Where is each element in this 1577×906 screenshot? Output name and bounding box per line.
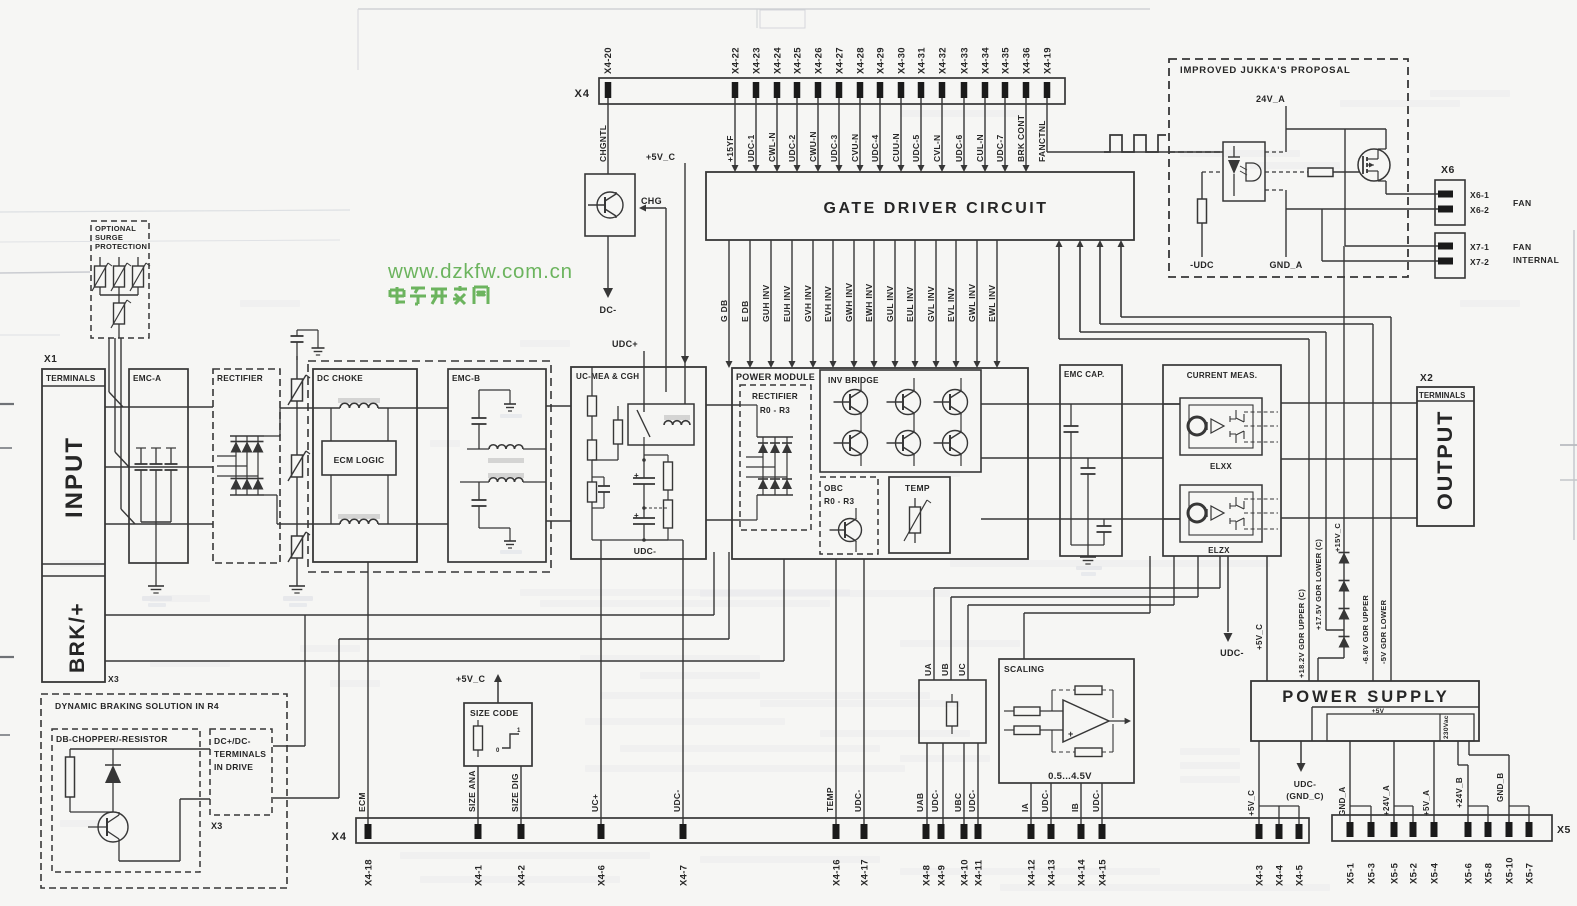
svg-text:X4-1: X4-1	[474, 864, 485, 886]
wire DC+ rail rectifier to choke	[280, 407, 340, 409]
temp sensor block	[889, 477, 950, 553]
inverter bridge block	[820, 370, 981, 472]
mosfet Q-FAN	[1358, 149, 1390, 181]
pin X4-20	[603, 47, 614, 98]
uc-mea & cgh block	[571, 367, 706, 559]
svg-text:GATE DRIVER CIRCUIT: GATE DRIVER CIRCUIT	[824, 200, 1049, 217]
svg-text:+5V_C: +5V_C	[456, 674, 485, 684]
wire phase C input	[105, 523, 213, 525]
voltage divider block UA/UB/UC	[919, 663, 986, 743]
pin X4-28	[856, 47, 867, 98]
wire phase W output	[981, 518, 1180, 520]
wire input feed L1	[109, 338, 123, 407]
bleeder resistor R5	[644, 455, 673, 500]
svg-text:X4-8: X4-8	[922, 865, 933, 886]
svg-text:BRK CONT: BRK CONT	[1016, 114, 1026, 162]
svg-text:UBC: UBC	[953, 793, 963, 812]
wire UDC-5 from pin to gate driver	[911, 98, 925, 172]
svg-text:EMC CAP.: EMC CAP.	[1064, 370, 1104, 379]
svg-text:PROTECTION: PROTECTION	[95, 242, 147, 251]
svg-text:EVH INV: EVH INV	[823, 286, 833, 322]
svg-text:GND_A: GND_A	[1269, 260, 1302, 270]
svg-text:X4-31: X4-31	[917, 47, 928, 74]
svg-text:+5V_A: +5V_A	[1422, 790, 1431, 816]
wire X7-2 to GND_A	[1322, 209, 1438, 261]
pin X4-10 (UBC)	[953, 793, 971, 886]
svg-text:G DB: G DB	[719, 300, 729, 322]
wire -6.8V GDR UPPER supply	[1097, 240, 1374, 681]
EMC-A Y-capacitors	[135, 448, 178, 522]
svg-text:X4-29: X4-29	[876, 47, 887, 74]
svg-text:X4-30: X4-30	[897, 47, 908, 74]
scaling block	[999, 659, 1134, 783]
wire EWL INV gate driver to power module	[987, 240, 1001, 368]
wire GWL INV gate driver to power module	[967, 240, 981, 368]
svg-text:UDC-: UDC-	[967, 790, 977, 812]
wire EWH INV gate driver to power module	[864, 240, 878, 368]
wire CWL-N from pin to gate driver	[767, 98, 781, 172]
gate driver circuit block U-GD	[706, 172, 1134, 240]
size code block	[464, 703, 532, 766]
wire phase U output	[981, 403, 1180, 405]
svg-text:X4-19: X4-19	[1043, 47, 1054, 74]
pin X4-31	[917, 47, 928, 98]
net 24V_A	[1256, 94, 1386, 152]
svg-text:OBC: OBC	[824, 484, 843, 493]
dc bus capacitor C3	[633, 506, 655, 542]
svg-text:+: +	[1068, 729, 1074, 739]
gate resistor R-G	[1265, 168, 1360, 177]
terminal block X1	[42, 354, 119, 684]
emc cap ground	[1071, 545, 1104, 576]
pin X4-14 (IB)	[1070, 803, 1088, 886]
pin X4-26	[814, 47, 825, 98]
svg-text:UDC-7: UDC-7	[995, 135, 1005, 162]
emc capacitor C6	[1097, 519, 1112, 545]
svg-text:X6-2: X6-2	[1470, 205, 1489, 215]
current sensor ELZX	[1180, 485, 1278, 555]
charging relay K1	[628, 404, 694, 445]
svg-text:UC+: UC+	[590, 794, 600, 812]
svg-text:ELZX: ELZX	[1208, 546, 1230, 555]
svg-text:+18.2V GDR UPPER (C): +18.2V GDR UPPER (C)	[1297, 589, 1306, 678]
pin X4-12 (IA)	[1020, 803, 1038, 886]
dc bus varistor RV6	[288, 424, 310, 508]
EMC-B filter block	[448, 369, 546, 562]
svg-text:CUL-N: CUL-N	[975, 134, 985, 162]
wire phase U into ELXX	[1163, 403, 1180, 405]
wire IB to X4-14	[1080, 783, 1082, 824]
charge transistor Q-CHG block	[585, 174, 635, 236]
svg-text:X4-7: X4-7	[679, 865, 690, 886]
svg-text:GUL INV: GUL INV	[885, 286, 895, 322]
svg-text:X4-24: X4-24	[773, 47, 784, 74]
wire UA voltage tap	[934, 556, 1220, 680]
svg-text:0: 0	[496, 748, 500, 754]
wire +5V_A to X5-4	[1422, 741, 1434, 824]
pin X4-5	[1295, 824, 1306, 886]
bleeder resistor R6	[644, 500, 673, 540]
svg-text:UDC-: UDC-	[634, 546, 656, 556]
pin X4-23	[752, 47, 763, 98]
obc brake chopper dashed block R0-R3	[820, 477, 878, 554]
svg-text:X4: X4	[575, 88, 590, 100]
pin X4-16 (TEMP)	[825, 787, 843, 886]
pin X5-7	[1525, 822, 1536, 884]
svg-text:GVL INV: GVL INV	[926, 286, 936, 322]
power supply block	[1251, 681, 1479, 741]
pin X4-22	[731, 47, 742, 98]
dc choke/emc-b dashed enclosure	[308, 361, 551, 572]
svg-text:INPUT: INPUT	[61, 436, 88, 518]
svg-text:X5-10: X5-10	[1505, 857, 1516, 884]
wire GND_B to X5-10/X5-7	[1469, 741, 1529, 824]
svg-text:UDC-5: UDC-5	[911, 135, 921, 162]
svg-text:www.dzkfw.com.cn: www.dzkfw.com.cn	[387, 260, 573, 283]
svg-text:X1: X1	[44, 354, 57, 365]
wire GND_A to X5-1/X5-3	[1338, 741, 1371, 824]
svg-text:-UDC: -UDC	[1190, 260, 1214, 270]
net UDC- label	[592, 540, 656, 556]
module rectifier dashed block R0-R3	[740, 385, 811, 530]
svg-text:X4-6: X4-6	[597, 865, 608, 886]
svg-text:X4-25: X4-25	[793, 47, 804, 74]
svg-text:ECM LOGIC: ECM LOGIC	[334, 455, 385, 465]
wire -5V GDR LOWER supply	[1118, 240, 1392, 681]
svg-text:X4-35: X4-35	[1001, 47, 1012, 74]
svg-text:X4-27: X4-27	[835, 47, 846, 74]
svg-text:X5-2: X5-2	[1409, 863, 1420, 884]
svg-text:X6-1: X6-1	[1470, 190, 1489, 200]
svg-text:X4-15: X4-15	[1098, 859, 1109, 886]
pin X4-9 (UDC-)	[930, 790, 948, 886]
wire +15YF from pin to gate driver	[725, 98, 739, 172]
wire chopper emitter return	[119, 799, 210, 861]
emc cap block	[1060, 365, 1122, 556]
wire DC+ rail choke to EMC-B	[378, 407, 448, 409]
current sensor ELXX	[1180, 398, 1278, 471]
surge varistor RV4	[111, 295, 131, 338]
wire UDC- to X4-11	[977, 743, 979, 824]
svg-text:X5-3: X5-3	[1367, 863, 1378, 884]
svg-text:UDC-: UDC-	[853, 790, 863, 812]
scaling output	[1109, 718, 1131, 724]
wire BRK CONT from pin to gate driver	[1016, 98, 1030, 172]
dc+/dc- terminals dashed block	[210, 729, 272, 831]
dynamic braking solution dashed enclosure	[41, 694, 287, 888]
wire chopper branch down	[273, 615, 305, 746]
connector X7	[1435, 233, 1559, 278]
wire X7-1 to 24V_A	[1345, 129, 1438, 246]
svg-text:X2: X2	[1420, 373, 1433, 384]
svg-text:TERMINALS: TERMINALS	[46, 374, 96, 383]
pin X4-27	[835, 47, 846, 98]
connector X5 body	[1332, 815, 1571, 841]
pin X5-4	[1430, 822, 1441, 884]
svg-text:X3: X3	[211, 821, 223, 831]
wire DC- chopper rail	[105, 559, 784, 661]
wire G DB gate driver to power module	[719, 240, 733, 368]
svg-text:X5-8: X5-8	[1484, 863, 1495, 884]
svg-text:POWER MODULE: POWER MODULE	[736, 372, 815, 382]
net GND_A	[1265, 190, 1303, 270]
current meas. block	[1163, 365, 1281, 556]
svg-text:FAN: FAN	[1513, 198, 1532, 208]
watermark www.dzkfw.com.cn 电子开发网 (green)	[387, 260, 573, 304]
svg-text:CUU-N: CUU-N	[891, 133, 901, 162]
wire +24V_A to X5-5/X5-2	[1382, 741, 1413, 824]
wire IA to X4-12	[1030, 783, 1032, 824]
wire DC- from charge transistor	[600, 236, 617, 315]
svg-text:GND_A: GND_A	[1338, 786, 1347, 816]
wire EVL INV gate driver to power module	[946, 240, 960, 368]
pin X4-15 (UDC-)	[1091, 790, 1109, 886]
svg-text:UDC+: UDC+	[612, 339, 638, 349]
wire current signal to scaling	[1024, 556, 1150, 659]
svg-text:CURRENT MEAS.: CURRENT MEAS.	[1187, 371, 1258, 380]
wire mosfet source to X6-1	[1378, 181, 1438, 194]
ECM logic block	[322, 408, 396, 524]
varistor ground	[283, 586, 313, 607]
svg-text:X6: X6	[1441, 164, 1455, 176]
igbt Q2 (low side)	[834, 414, 868, 466]
wire phase V output	[981, 457, 1163, 459]
svg-text:X4-18: X4-18	[364, 859, 375, 886]
svg-text:EMC-A: EMC-A	[133, 374, 161, 383]
svg-text:POWER SUPPLY: POWER SUPPLY	[1282, 688, 1449, 706]
scaling input resistor R7	[1004, 707, 1063, 716]
svg-text:1: 1	[517, 728, 521, 734]
pin X5-3	[1367, 822, 1378, 884]
wire UBC to X4-10	[963, 743, 965, 824]
svg-text:DC-: DC-	[600, 305, 617, 315]
svg-text:DYNAMIC BRAKING SOLUTION IN R4: DYNAMIC BRAKING SOLUTION IN R4	[55, 701, 219, 711]
EMC-B top Y-cap	[472, 390, 523, 449]
wire opto vcc (dashed)	[1265, 151, 1286, 153]
wire +18.2V GDR UPPER (C) supply	[1056, 240, 1310, 681]
wire UDC-3 from pin to gate driver	[829, 98, 843, 172]
pin X4-6 (UC+)	[590, 794, 608, 886]
svg-text:SCALING: SCALING	[1004, 664, 1044, 674]
svg-text:UDC-: UDC-	[1040, 790, 1050, 812]
module rectifier bridge diodes	[740, 405, 793, 520]
svg-text:X5-1: X5-1	[1346, 862, 1357, 884]
connector X4 (top) body	[575, 78, 1065, 104]
svg-text:X4-20: X4-20	[603, 47, 614, 74]
svg-text:FAN: FAN	[1513, 242, 1532, 252]
svg-text:ECM: ECM	[357, 792, 367, 812]
wire FANCTNL from X4-19 to fan control opto	[1037, 98, 1223, 162]
pin X5-10	[1505, 822, 1516, 884]
svg-text:+5V_C: +5V_C	[646, 152, 675, 162]
pin X5-5	[1390, 822, 1401, 884]
wire +24V_B to X5-6/X5-8	[1455, 741, 1488, 824]
svg-text:+17.5V GDR LOWER (C): +17.5V GDR LOWER (C)	[1314, 539, 1323, 630]
svg-text:UDC-4: UDC-4	[870, 135, 880, 162]
net -UDC	[1190, 260, 1214, 270]
svg-text:UDC-2: UDC-2	[787, 135, 797, 162]
wire DC- rail rectifier to choke	[277, 523, 340, 525]
wire UDC- (GND_C) arrow	[1286, 741, 1324, 801]
pin X4-29	[876, 47, 887, 98]
input rectifier dashed block	[213, 369, 280, 563]
dc bus capacitor C2	[633, 445, 655, 518]
svg-text:X4-11: X4-11	[974, 859, 985, 886]
wire SIZE ANA to X4-1	[477, 766, 479, 824]
pin X4-19	[1043, 47, 1054, 98]
pin X4-1 (SIZE ANA)	[467, 770, 485, 886]
svg-text:X4-23: X4-23	[752, 47, 763, 74]
wire DC- rail choke to EMC-B	[378, 523, 448, 525]
wire GUH INV gate driver to power module	[761, 240, 775, 368]
pin X5-2	[1409, 822, 1420, 884]
svg-text:UC-MEA & CGH: UC-MEA & CGH	[576, 372, 639, 381]
wire phase A input	[105, 406, 213, 408]
svg-text:RECTIFIER: RECTIFIER	[752, 392, 798, 401]
svg-text:GUH INV: GUH INV	[761, 284, 771, 322]
svg-text:GWH INV: GWH INV	[844, 283, 854, 322]
wire fan control input to opto	[1169, 151, 1223, 153]
svg-text:OPTIONAL: OPTIONAL	[95, 224, 136, 233]
svg-text:X4-9: X4-9	[937, 865, 948, 886]
svg-text:X4-22: X4-22	[731, 47, 742, 74]
EMC-A filter block	[129, 369, 188, 563]
wire DC+ rail UC-MEA to power module	[706, 404, 740, 406]
svg-text:CWL-N: CWL-N	[767, 132, 777, 162]
svg-text:UDC-1: UDC-1	[746, 135, 756, 162]
svg-text:INTERNAL: INTERNAL	[1513, 255, 1559, 265]
connector X6	[1435, 164, 1532, 225]
svg-text:X5-6: X5-6	[1464, 863, 1475, 884]
wire CVL-N from pin to gate driver	[932, 98, 946, 172]
svg-text:UDC-6: UDC-6	[954, 135, 964, 162]
wire UDC+ into charging switch	[612, 339, 644, 412]
obc transistor Q7	[830, 508, 862, 552]
svg-text:X5-7: X5-7	[1525, 863, 1536, 884]
wire +17.5V GDR LOWER (C) supply	[1077, 240, 1345, 630]
improved jukka's proposal dashed enclosure	[1169, 59, 1408, 277]
optional surge protection enclosure	[91, 221, 149, 338]
svg-text:EUH INV: EUH INV	[782, 285, 792, 322]
uc-mea divider resistor R2	[588, 416, 597, 460]
svg-text:FANCTNL: FANCTNL	[1037, 120, 1047, 162]
svg-text:DB-CHOPPER/-RESISTOR: DB-CHOPPER/-RESISTOR	[56, 734, 168, 744]
svg-text:+5V: +5V	[1372, 708, 1385, 715]
svg-text:TEMP: TEMP	[905, 483, 930, 493]
svg-text:X4-5: X4-5	[1295, 864, 1306, 886]
svg-text:INV BRIDGE: INV BRIDGE	[828, 376, 879, 385]
svg-text:X7-2: X7-2	[1470, 257, 1489, 267]
wire UDC-2 from pin to gate driver	[787, 98, 801, 172]
wire CUL-N from pin to gate driver	[975, 98, 989, 172]
svg-text:DC CHOKE: DC CHOKE	[317, 374, 363, 383]
pin X4-34	[981, 47, 992, 98]
svg-text:X4-16: X4-16	[832, 859, 843, 886]
scaling range label 0.5...4.5V	[1048, 771, 1092, 782]
wire UDC-4 from pin to gate driver	[870, 98, 884, 172]
svg-text:UDC-: UDC-	[1220, 648, 1244, 658]
wire phase W to X2	[1281, 517, 1417, 519]
svg-text:UDC-: UDC-	[930, 790, 940, 812]
svg-text:IB: IB	[1070, 803, 1080, 812]
wire DC link mid rail	[273, 552, 729, 798]
igbt Q6 (low side)	[934, 414, 968, 466]
input rectifier diode bridge D1-D6	[217, 408, 280, 524]
svg-text:RECTIFIER: RECTIFIER	[217, 374, 263, 383]
uc-mea divider resistor R1	[588, 367, 597, 416]
svg-text:X7-1: X7-1	[1470, 242, 1489, 252]
wire +5V_C to charging relay	[646, 152, 689, 404]
brake resistor R11	[66, 749, 114, 812]
igbt Q4 (low side)	[887, 414, 921, 466]
pin X4-11 (UDC-)	[967, 790, 985, 886]
svg-text:TERMINALS: TERMINALS	[1419, 391, 1465, 400]
svg-text:X4-12: X4-12	[1027, 859, 1038, 886]
svg-text:SIZE DIG: SIZE DIG	[510, 773, 520, 812]
wire DC- rail UC-MEA to power module	[706, 519, 740, 521]
wire X6-2 to GND_A	[1286, 208, 1438, 210]
svg-text:(GND_C): (GND_C)	[1286, 791, 1324, 801]
wire SIZE DIG to X4-2	[520, 766, 522, 824]
wire UDC-6 from pin to gate driver	[954, 98, 968, 172]
svg-text:230Vac: 230Vac	[1443, 715, 1450, 739]
svg-text:UC: UC	[957, 663, 967, 676]
feedback resistor R10	[1052, 724, 1113, 757]
wire +5V_C current meas supply	[1255, 556, 1267, 681]
connector X4 (bottom) body	[332, 818, 1309, 843]
svg-text:UB: UB	[940, 663, 950, 676]
choke inductor L2 bottom	[338, 514, 380, 524]
pin X4-2 (SIZE DIG)	[510, 773, 528, 886]
svg-text:R0 - R3: R0 - R3	[824, 497, 854, 506]
wire EVH INV gate driver to power module	[823, 240, 837, 368]
svg-text:ELXX: ELXX	[1210, 462, 1232, 471]
wire DC+ rail EMC-B to UC-MEA	[546, 405, 571, 407]
surge varistors RV1-RV3	[92, 257, 150, 295]
svg-text:UA: UA	[923, 663, 933, 676]
pin X5-8	[1484, 822, 1495, 884]
EMC-B inductor L3	[467, 445, 546, 463]
svg-text:X4-33: X4-33	[960, 47, 971, 74]
svg-text:+24V_A: +24V_A	[1382, 785, 1391, 816]
svg-text:+15YF: +15YF	[725, 135, 735, 162]
EMC-A ground	[142, 522, 172, 607]
wire +5V_C size code supply	[456, 674, 502, 703]
svg-text:GWL INV: GWL INV	[967, 284, 977, 322]
svg-text:X5-4: X5-4	[1430, 862, 1441, 884]
svg-text:SIZE ANA: SIZE ANA	[467, 770, 477, 812]
wire ECM to X4-18	[367, 562, 369, 824]
pin X4-36	[1022, 47, 1033, 98]
svg-text:SIZE CODE: SIZE CODE	[470, 708, 519, 718]
thermistor RT1	[904, 498, 931, 543]
scaling input resistor R8	[1004, 726, 1063, 735]
pin X4-13 (UDC-)	[1040, 790, 1058, 886]
svg-text:24V_A: 24V_A	[1256, 94, 1285, 104]
svg-text:+15V_C: +15V_C	[1333, 523, 1342, 552]
igbt Q5 (high side)	[934, 378, 968, 415]
svg-text:IMPROVED JUKKA'S PROPOSAL: IMPROVED JUKKA'S PROPOSAL	[1180, 65, 1351, 76]
wire UC voltage tap	[968, 556, 1174, 680]
svg-text:X4-36: X4-36	[1022, 47, 1033, 74]
svg-text:TERMINALS: TERMINALS	[214, 749, 266, 759]
svg-text:DC+/DC-: DC+/DC-	[214, 736, 251, 746]
svg-text:EWH INV: EWH INV	[864, 284, 874, 322]
svg-text:UDC-: UDC-	[1294, 779, 1316, 789]
wire UDC- to X4-7	[644, 540, 683, 824]
wire E DB gate driver to power module	[740, 240, 754, 368]
svg-text:X4: X4	[332, 831, 347, 843]
